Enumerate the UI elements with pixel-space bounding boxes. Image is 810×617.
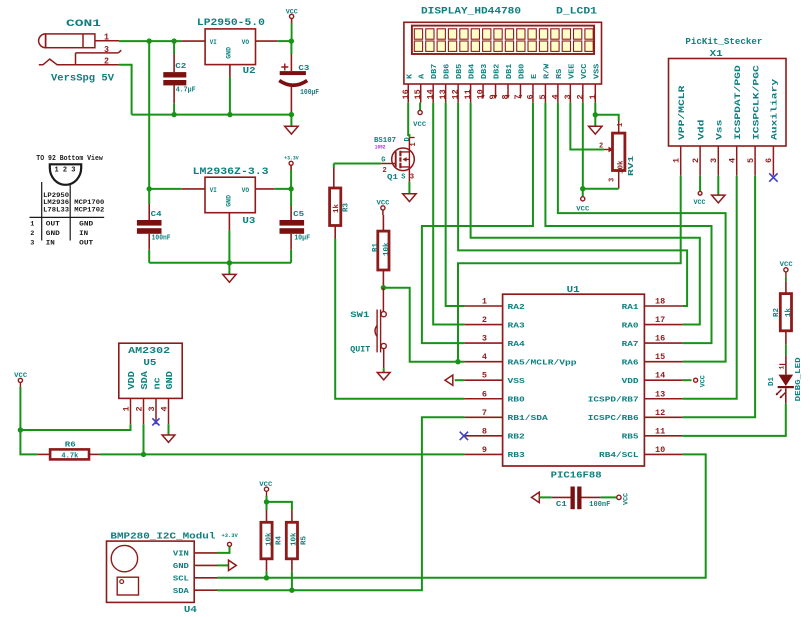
svg-text:CON1: CON1 [66, 18, 101, 30]
svg-text:VI: VI [210, 187, 217, 194]
svg-text:OUT: OUT [79, 239, 93, 247]
display D_LCD1 pin 14 DB7 [426, 64, 440, 103]
svg-text:X1: X1 [710, 48, 723, 59]
wire R3 to U1 RB0 [335, 239, 464, 399]
node junction U3 VI / C4 [147, 186, 152, 191]
display D_LCD1 pin 9 DB2 [488, 63, 502, 99]
wire R2 to D1 [785, 344, 787, 355]
svg-text:VersSpg 5V: VersSpg 5V [51, 73, 115, 85]
ground symbol below Q1 [408, 182, 410, 194]
ground symbol below C3 [290, 115, 292, 127]
svg-text:14: 14 [655, 371, 665, 381]
svg-text:8: 8 [482, 426, 487, 436]
U5 pin 4 GND [159, 371, 175, 425]
node junction R1 / SW1 / MCLR [381, 285, 386, 290]
svg-text:R2: R2 [773, 307, 781, 317]
svg-text:5: 5 [482, 371, 487, 381]
svg-text:16: 16 [401, 89, 411, 99]
svg-text:1: 1 [779, 366, 786, 370]
wire 5V rail to U3 VI [149, 188, 182, 190]
svg-text:VIN: VIN [173, 551, 189, 559]
sensor U5 body [119, 343, 182, 398]
svg-text:DISPLAY_HD44780: DISPLAY_HD44780 [421, 6, 521, 18]
svg-text:17: 17 [655, 315, 665, 325]
svg-text:3: 3 [30, 239, 34, 247]
svg-text:RA0: RA0 [622, 322, 640, 330]
svg-text:3: 3 [410, 173, 414, 181]
Q1 source pin 3 [408, 167, 410, 182]
svg-text:R5: R5 [301, 535, 309, 545]
IC U1 body PIC16F88 [503, 294, 645, 466]
svg-text:6: 6 [764, 158, 774, 163]
svg-text:L78L33: L78L33 [43, 206, 69, 214]
svg-text:3: 3 [482, 334, 487, 344]
wire U3 VO to 3.3V node [274, 188, 291, 190]
svg-text:10k: 10k [383, 242, 391, 256]
svg-text:IN: IN [79, 230, 88, 238]
supply VCC at LCD pin A [419, 103, 421, 111]
svg-text:4.7k: 4.7k [61, 453, 78, 461]
svg-text:D_LCD1: D_LCD1 [556, 6, 597, 18]
connector X1 pin 6 Auxiliary [764, 79, 779, 176]
capacitor C4 [148, 189, 150, 204]
svg-text:1: 1 [104, 33, 110, 43]
wire net RS LCD to U1 RA6 [558, 103, 726, 362]
svg-text:RA6: RA6 [622, 359, 640, 367]
U1 pin 1 RA2 [465, 297, 526, 312]
svg-text:BMP280_I2C_Modul: BMP280_I2C_Modul [110, 531, 215, 542]
svg-text:14: 14 [426, 89, 436, 99]
svg-text:Vss: Vss [716, 119, 725, 140]
wire 5V rail down to U3 VI [148, 41, 150, 189]
svg-text:K: K [406, 73, 414, 79]
svg-text:RA3: RA3 [508, 322, 526, 330]
svg-text:2: 2 [482, 315, 487, 325]
wire D1 to U1 RB5 [682, 404, 785, 436]
wire net DB6 LCD to U1 RA2 [446, 103, 465, 306]
display D_LCD1 pin 2 VCC [575, 63, 589, 102]
node junction U3 GND bottom [227, 260, 232, 265]
wire VCC to R4 and R5 [266, 496, 268, 510]
ground symbol below LCD VSS [594, 115, 596, 127]
svg-text:1: 1 [410, 142, 418, 146]
U1 pin 3 RA4 [465, 334, 526, 349]
U1 pin 14 VDD [622, 371, 683, 386]
svg-text:ICSPC/RB6: ICSPC/RB6 [588, 415, 639, 423]
svg-text:RB3: RB3 [508, 452, 526, 460]
svg-text:12: 12 [655, 408, 665, 418]
svg-text:VCC: VCC [780, 261, 793, 268]
svg-text:VPP/MCLR: VPP/MCLR [678, 85, 687, 140]
wire GND rail under U3 [149, 262, 291, 264]
node junction SCL / R4 [264, 575, 269, 580]
resistor R3 [333, 164, 335, 169]
svg-text:VO: VO [242, 187, 250, 194]
svg-text:LP2950-5.0: LP2950-5.0 [197, 17, 265, 29]
svg-text:C1: C1 [556, 501, 568, 509]
svg-text:2: 2 [134, 406, 144, 411]
wire VCC junction down to R6 [20, 430, 37, 454]
svg-text:1: 1 [672, 158, 682, 163]
svg-text:GND: GND [46, 230, 60, 238]
svg-text:9: 9 [488, 94, 498, 99]
display D_LCD1 pin 1 VSS [588, 63, 602, 102]
svg-text:VSS: VSS [508, 378, 526, 386]
svg-text:1: 1 [30, 220, 34, 228]
svg-text:1: 1 [588, 94, 598, 99]
node junction C2 top [171, 38, 176, 43]
display D_LCD1 pin 12 DB5 [451, 63, 465, 102]
svg-text:RB4/SCL: RB4/SCL [599, 452, 639, 460]
Q1 drain pin 1 [408, 137, 410, 152]
U3 pin GND stub [228, 213, 230, 231]
svg-text:10µF: 10µF [294, 235, 310, 243]
wire CON1 pin1 to U2 VI (5V in) [119, 40, 182, 42]
node junction C2 bottom [171, 112, 176, 117]
svg-text:VCC: VCC [581, 63, 589, 79]
svg-text:100nF: 100nF [589, 501, 610, 509]
display D_LCD1 pin 4 RS [550, 68, 564, 102]
svg-text:C5: C5 [293, 211, 305, 219]
regulator U2 body [205, 29, 255, 65]
no-connect U1 RB2 pin8 [460, 432, 468, 440]
connector X1 pin 1 VPP/MCLR [672, 85, 687, 175]
wire CON1 pin2 to GND rail [119, 65, 132, 115]
connector X1 pin 3 Vss [709, 119, 724, 175]
U1 pin 8 RB2 [465, 426, 526, 441]
svg-text:7: 7 [482, 408, 487, 418]
wire LCD VEE to RV1 wiper [570, 103, 604, 150]
svg-text:RA1: RA1 [622, 304, 640, 312]
U2 pin VO stub [256, 40, 278, 42]
svg-text:DB5: DB5 [456, 63, 464, 79]
resistor R2 [785, 281, 787, 293]
ground symbol below U3 [228, 263, 230, 275]
svg-text:D1: D1 [768, 376, 776, 386]
resistor R1 [382, 215, 384, 231]
ground symbol at U5 GND [168, 424, 170, 435]
svg-text:VO: VO [242, 39, 250, 46]
display D_LCD1 pin 7 DB0 [513, 63, 527, 99]
svg-text:R1: R1 [372, 242, 380, 252]
svg-text:2: 2 [383, 167, 387, 175]
display D_LCD1 pin 11 DB4 [463, 63, 477, 102]
node junction R4 top [264, 499, 269, 504]
svg-text:6: 6 [525, 94, 535, 99]
U1 pin 16 RA7 [622, 334, 683, 349]
capacitor C3 polarized [290, 41, 292, 54]
U1 pin 18 RA1 [622, 297, 683, 312]
wire net DB5 LCD to U1 RA1 [458, 103, 687, 306]
U1 pin 7 RB1/SDA [465, 408, 549, 423]
svg-text:R3: R3 [343, 202, 351, 212]
svg-text:2: 2 [104, 57, 109, 67]
no-connect X1 pin 6 [769, 173, 777, 181]
CON1 pin 1 [95, 40, 119, 42]
U1 pin 12 ICSPC/RB6 [588, 408, 683, 423]
resistor R5 [291, 510, 293, 522]
wire LCD VCC to RV1 pin3 and VCC symbol [582, 103, 584, 189]
capacitor C5 [290, 189, 292, 206]
connector X1 body [669, 59, 787, 147]
svg-text:VCC: VCC [576, 206, 589, 213]
svg-text:15: 15 [655, 352, 665, 362]
wire net ICSPCLK X1 to U1 RB6 [682, 176, 755, 418]
node junction U2 output / C3 / VCC [289, 38, 294, 43]
svg-text:4.7µF: 4.7µF [176, 87, 196, 95]
ground symbol at U4 GND [217, 564, 229, 566]
wire net DB7 LCD to U1 RA3 [433, 103, 464, 325]
node junction C3 bottom [289, 112, 294, 117]
svg-text:VCC: VCC [623, 493, 630, 505]
svg-text:R/W: R/W [543, 63, 551, 79]
wire R6 to U1 RB3 [99, 453, 464, 455]
U1 pin 11 RB5 [622, 426, 683, 441]
connector X1 pin 2 Vdd [691, 119, 706, 175]
svg-text:nc: nc [153, 377, 163, 389]
connector X1 pin 4 ICSPDAT/PGD [728, 65, 743, 176]
svg-text:C3: C3 [298, 65, 310, 73]
svg-text:VDD: VDD [622, 378, 640, 386]
svg-text:11: 11 [463, 89, 473, 99]
svg-text:RB1/SDA: RB1/SDA [508, 415, 549, 423]
U1 pin 10 RB4/SCL [599, 445, 682, 460]
display D_LCD1 body with 2x16 character cells [404, 22, 602, 84]
svg-text:U3: U3 [242, 215, 255, 226]
U4 pin SDA [173, 588, 217, 596]
svg-text:16: 16 [655, 334, 665, 344]
node junction VCC / R6 branch [18, 427, 23, 432]
U1 pin 4 RA5/MCLR/Vpp [465, 352, 578, 367]
svg-text:1k: 1k [333, 203, 341, 213]
connector CON1 barrel jack symbol [39, 34, 95, 48]
wire U2 GND down to GND rail [229, 77, 231, 115]
wire net DB4 LCD to U1 RA0 [471, 103, 700, 325]
svg-text:9: 9 [482, 445, 487, 455]
wire Q1 gate to R3 [334, 163, 382, 165]
svg-text:DB3: DB3 [481, 63, 489, 79]
svg-text:RB5: RB5 [622, 434, 640, 442]
svg-text:13: 13 [655, 389, 665, 399]
svg-text:10k: 10k [265, 532, 273, 546]
LED D1 DEBG_LED [785, 355, 787, 374]
svg-text:VDD: VDD [127, 371, 137, 390]
U3 pin VO stub [255, 188, 274, 190]
svg-text:1: 1 [617, 123, 625, 127]
U3 pin VI stub [182, 188, 205, 190]
svg-text:RA2: RA2 [508, 304, 526, 312]
U1 pin 17 RA0 [622, 315, 683, 330]
svg-text:+3.3V: +3.3V [284, 156, 299, 162]
svg-text:6: 6 [482, 389, 487, 399]
svg-text:RB0: RB0 [508, 397, 526, 405]
svg-text:VI: VI [210, 39, 217, 46]
svg-text:RA5/MCLR/Vpp: RA5/MCLR/Vpp [508, 359, 578, 367]
svg-text:PicKit_Stecker: PicKit_Stecker [685, 36, 762, 47]
svg-text:10: 10 [476, 89, 486, 99]
svg-text:GND: GND [226, 195, 233, 207]
svg-text:+3.3V: +3.3V [222, 533, 239, 539]
display D_LCD1 pin 16 K [401, 73, 415, 102]
svg-text:2: 2 [30, 230, 34, 238]
svg-text:VEE: VEE [568, 63, 576, 79]
U5 pin 3 nc [147, 377, 163, 424]
svg-text:DB7: DB7 [431, 64, 439, 79]
svg-text:DEBG_LED: DEBG_LED [795, 357, 803, 402]
svg-text:12: 12 [451, 89, 461, 99]
svg-text:DB1: DB1 [506, 63, 514, 79]
switch SW1 pushbutton [382, 288, 384, 312]
svg-text:LM2936Z-3.3: LM2936Z-3.3 [193, 166, 269, 178]
supply VCC at X1 Vdd [699, 176, 701, 191]
svg-text:QUIT: QUIT [350, 345, 370, 355]
node junction LCD VCC / RV1 pin3 [580, 186, 585, 191]
svg-text:3: 3 [709, 158, 719, 163]
wire VCC to U5 VDD [20, 387, 130, 430]
svg-text:ICSPDAT/PGD: ICSPDAT/PGD [734, 65, 743, 140]
resistor R4 [266, 510, 268, 522]
wire net ICSPDAT X1 to U1 RB7 [682, 176, 736, 399]
U5 pin 2 SDA [134, 371, 150, 425]
display D_LCD1 pin 15 A [413, 73, 427, 102]
display D_LCD1 pin 3 VEE [563, 63, 577, 102]
svg-text:AM2302: AM2302 [128, 345, 170, 356]
svg-text:R4: R4 [275, 535, 283, 545]
U1 pin 6 RB0 [465, 389, 526, 404]
U1 pin 13 ICSPD/RB7 [588, 389, 683, 404]
node junction SDA / R5 [289, 588, 294, 593]
supply VCC at U1 VDD pin14 [682, 379, 691, 381]
svg-text:GND: GND [165, 371, 175, 390]
svg-text:8: 8 [501, 94, 511, 99]
wire MCLR junction to U1 RA5 and PicKit VPP [383, 288, 464, 362]
transistor Q1 BS107 symbol [392, 148, 415, 171]
U1 pin 5 VSS [465, 371, 526, 386]
svg-text:SDA: SDA [173, 588, 190, 596]
wire LCD K to Q1 drain [408, 103, 409, 138]
display D_LCD1 pin 10 DB3 [476, 63, 490, 99]
U5 pin 1 VDD [121, 371, 137, 425]
svg-text:R6: R6 [65, 441, 77, 449]
display D_LCD1 pin 13 DB6 [438, 63, 452, 102]
potentiometer RV1 [618, 121, 620, 133]
svg-text:SW1: SW1 [350, 310, 369, 320]
U2 pin GND stub [229, 65, 231, 77]
ground symbol at X1 Vss [717, 176, 719, 195]
svg-text:DB2: DB2 [494, 63, 502, 79]
wire net E LCD to U1 RA4 [422, 103, 533, 344]
svg-text:1: 1 [482, 297, 487, 307]
Q1 gate pin 2 [381, 163, 395, 165]
svg-text:A: A [419, 73, 427, 79]
U4 pin SCL [173, 576, 217, 584]
svg-text:3: 3 [147, 406, 157, 411]
U4 pin VIN [173, 551, 217, 559]
svg-text:GND: GND [173, 563, 190, 571]
wire U3 GND down [228, 230, 230, 262]
svg-text:7: 7 [513, 94, 523, 99]
svg-text:4: 4 [159, 406, 169, 411]
annotation regulator pinout table [30, 182, 105, 241]
svg-text:U2: U2 [243, 65, 256, 76]
svg-text:11: 11 [655, 426, 665, 436]
capacitor C1 [552, 496, 571, 498]
connector X1 pin 5 ICSPCLK/PGC [746, 65, 761, 176]
svg-text:U4: U4 [184, 604, 197, 615]
display D_LCD1 pin 6 E [525, 73, 539, 102]
svg-text:IN: IN [46, 239, 55, 247]
node junction U5 SDA / RB3 net [141, 452, 146, 457]
svg-text:RA4: RA4 [508, 341, 526, 349]
svg-text:1k: 1k [785, 307, 793, 317]
svg-text:3: 3 [609, 178, 617, 182]
svg-text:2: 2 [575, 94, 585, 99]
supply VCC below RV1 [581, 197, 585, 201]
ground symbol at U1 VSS pin5 [455, 379, 465, 381]
svg-text:5: 5 [746, 158, 756, 163]
display D_LCD1 pin 8 DB1 [501, 63, 515, 99]
svg-text:MCP1702: MCP1702 [74, 206, 104, 214]
U1 pin 9 RB3 [465, 445, 526, 460]
svg-text:15: 15 [413, 89, 423, 99]
U2 pin VI stub [182, 40, 205, 42]
svg-text:5: 5 [538, 94, 548, 99]
svg-text:VCC: VCC [700, 375, 707, 387]
svg-text:VSS: VSS [593, 63, 601, 79]
svg-text:OUT: OUT [46, 220, 60, 228]
svg-text:S: S [401, 173, 405, 181]
wire GND rail under U2 [132, 114, 292, 116]
svg-text:10: 10 [655, 445, 665, 455]
no-connect U5 pin3 nc [152, 418, 159, 425]
CON1 pin 2 with strain zigzag [39, 59, 119, 65]
svg-text:VCC: VCC [413, 121, 426, 128]
CON1 pin 3 [76, 52, 119, 54]
display D_LCD1 pin 5 R/W [538, 63, 552, 102]
svg-text:100µF: 100µF [300, 89, 319, 97]
wire U2 VO to VCC node [278, 40, 292, 42]
node junction LCD VSS [593, 112, 598, 117]
svg-text:RA7: RA7 [622, 341, 639, 349]
svg-text:1092: 1092 [375, 144, 386, 150]
U1 pin 2 RA3 [465, 315, 526, 330]
svg-text:2: 2 [691, 158, 701, 163]
svg-text:U5: U5 [143, 357, 156, 368]
svg-text:4: 4 [728, 158, 738, 163]
node junction MCLR at U1 RA5 [455, 359, 460, 364]
svg-text:ICSPCLK/PGC: ICSPCLK/PGC [752, 65, 761, 140]
wire U5 SDA down to RB3 net [143, 424, 145, 454]
wire net R/W LCD to U1 RA7 [545, 103, 711, 344]
svg-text:13: 13 [438, 89, 448, 99]
svg-text:3: 3 [563, 94, 573, 99]
ground symbol at C1 [532, 492, 540, 502]
svg-text:RV1: RV1 [628, 155, 636, 176]
svg-text:DB4: DB4 [469, 63, 477, 79]
U4 pin GND [173, 563, 217, 571]
svg-text:3: 3 [104, 45, 109, 55]
svg-text:TO 92 Bottom View: TO 92 Bottom View [36, 155, 103, 163]
svg-text:PIC16F88: PIC16F88 [551, 470, 602, 481]
svg-text:4: 4 [482, 352, 487, 362]
svg-text:DB0: DB0 [518, 63, 526, 79]
svg-text:Q1: Q1 [387, 174, 399, 182]
resistor R6 [38, 453, 50, 455]
svg-text:1 2 3: 1 2 3 [55, 167, 77, 175]
svg-text:GND: GND [226, 47, 233, 59]
svg-text:RS: RS [556, 68, 564, 79]
node junction 5V-rail branch [147, 38, 152, 43]
